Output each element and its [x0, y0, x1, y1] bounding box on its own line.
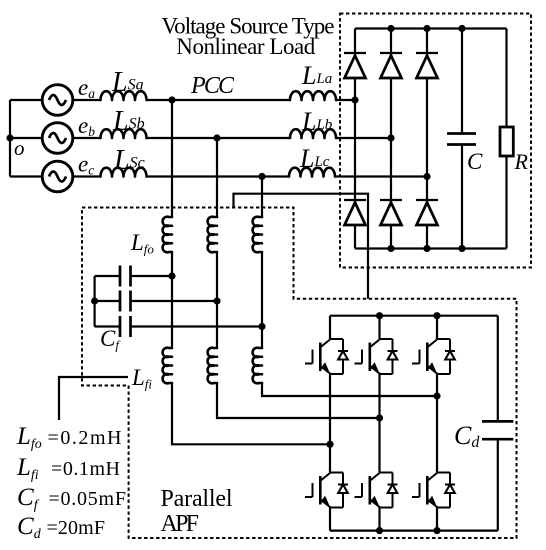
- inductor LLa: [290, 91, 336, 100]
- inverter bottom rail: [330, 529, 498, 531]
- inductor LLc: [289, 168, 335, 177]
- IGBT Q5: [355, 473, 398, 508]
- inductor Lfo3: [253, 217, 262, 253]
- wire LSc to LLc: [147, 175, 290, 177]
- capacitor Cf2 plates: [120, 291, 131, 312]
- connector wire to APF box: [234, 194, 369, 299]
- svg-text:Nonlinear Load: Nonlinear Load: [176, 34, 315, 59]
- diode D5: [380, 200, 402, 225]
- svg-text:o: o: [14, 136, 25, 160]
- capacitor Cd plates: [482, 421, 513, 439]
- resistor R body: [500, 127, 513, 156]
- diode D1: [344, 53, 366, 78]
- source ec: [42, 161, 73, 192]
- inductor LLb: [290, 129, 336, 138]
- node top leg2: [387, 25, 394, 32]
- source ea: [42, 85, 73, 116]
- svg-text:PCC: PCC: [190, 73, 235, 99]
- parallel APF dashed box: [82, 208, 517, 539]
- callout line to Lfi: [59, 377, 128, 420]
- node invtop leg2: [376, 312, 383, 319]
- node leg3-c: [423, 173, 430, 180]
- capacitor C plates: [447, 134, 476, 145]
- svg-text:=0.05mF: =0.05mF: [49, 488, 127, 510]
- load bottom rail: [355, 247, 507, 249]
- IGBT Q2: [355, 339, 398, 374]
- node cap2-leg2: [213, 297, 220, 304]
- inductor Lfo2: [208, 217, 217, 253]
- node leg1-a: [351, 96, 358, 103]
- inductor Lfi3: [253, 348, 262, 384]
- svg-text:R: R: [514, 149, 529, 174]
- inductor LSb: [101, 129, 147, 138]
- node b: [213, 134, 220, 141]
- node invtop leg3: [433, 312, 440, 319]
- wire LLb to bridge leg 2: [336, 137, 391, 139]
- svg-text:APF: APF: [161, 511, 200, 537]
- node o: [6, 134, 13, 141]
- wire LSb to LLb: [147, 137, 291, 139]
- inductor LSa: [101, 91, 147, 100]
- svg-text:=20mF: =20mF: [47, 517, 106, 539]
- node bottom leg2: [387, 245, 394, 252]
- inductor Lfi2: [208, 348, 217, 384]
- inductor Lfi1: [163, 348, 172, 384]
- cap 1: [95, 275, 172, 277]
- capacitor Cf1 plates: [120, 266, 131, 287]
- node invbot leg3: [433, 527, 440, 534]
- node leg2-b: [387, 134, 394, 141]
- node star: [91, 297, 98, 304]
- resistor R branch: [505, 29, 507, 249]
- IGBT Q4: [305, 473, 348, 508]
- svg-text:=0.2mH: =0.2mH: [48, 427, 122, 449]
- inverter leg 1 wires: [329, 316, 331, 531]
- cap star bus: [93, 276, 95, 327]
- node bottom leg3: [423, 245, 430, 252]
- IGBT Q3: [412, 339, 455, 374]
- node PCC: [168, 96, 175, 103]
- node c: [258, 173, 265, 180]
- node invbot leg2: [376, 527, 383, 534]
- filter leg 1 vertical: [172, 100, 330, 444]
- node cap1-leg1: [168, 272, 175, 279]
- diode D4: [344, 200, 366, 225]
- inverter leg 2 wires: [378, 316, 380, 531]
- wire LSa to LLa: [147, 99, 291, 101]
- svg-text:=0.1mH: =0.1mH: [51, 458, 120, 480]
- diode D3: [416, 53, 438, 78]
- svg-text:Parallel: Parallel: [161, 486, 233, 512]
- node mid leg2: [376, 414, 383, 421]
- bridge leg 3 wires: [426, 29, 428, 249]
- phase b wire: [10, 137, 101, 139]
- diode D6: [416, 200, 438, 225]
- node mid leg1: [326, 441, 333, 448]
- IGBT Q1: [305, 339, 348, 374]
- inverter top rail: [330, 315, 498, 317]
- cap 3: [95, 325, 262, 327]
- nonlinear load dashed box: [340, 14, 531, 268]
- capacitor Cf3 plates: [120, 316, 131, 337]
- bridge leg 1 wires: [354, 29, 356, 249]
- capacitor C branch: [461, 29, 463, 249]
- phase a wire: [10, 99, 101, 101]
- phase c wire: [10, 175, 101, 177]
- left bus wire: [9, 100, 11, 177]
- load top rail: [355, 27, 507, 29]
- inductor Lfo1: [163, 217, 172, 253]
- node bottom C: [458, 245, 465, 252]
- bridge leg 2 wires: [390, 29, 392, 249]
- wire LLa to bridge: [336, 99, 355, 101]
- node cap3-leg3: [258, 323, 265, 330]
- filter leg 2 vertical: [217, 138, 380, 418]
- source eb: [42, 123, 73, 154]
- capacitor Cd branch: [497, 316, 499, 531]
- IGBT Q6: [412, 473, 455, 508]
- diode D2: [380, 53, 402, 78]
- node top C: [458, 25, 465, 32]
- filter leg 3 vertical: [262, 177, 437, 397]
- svg-text:C: C: [467, 149, 483, 174]
- inductor LSc: [101, 168, 147, 177]
- inverter leg 3 wires: [436, 316, 438, 531]
- wire LLc to bridge leg 3: [335, 175, 427, 177]
- cap 2: [95, 300, 217, 302]
- node top leg3: [423, 25, 430, 32]
- node mid leg3: [433, 392, 440, 399]
